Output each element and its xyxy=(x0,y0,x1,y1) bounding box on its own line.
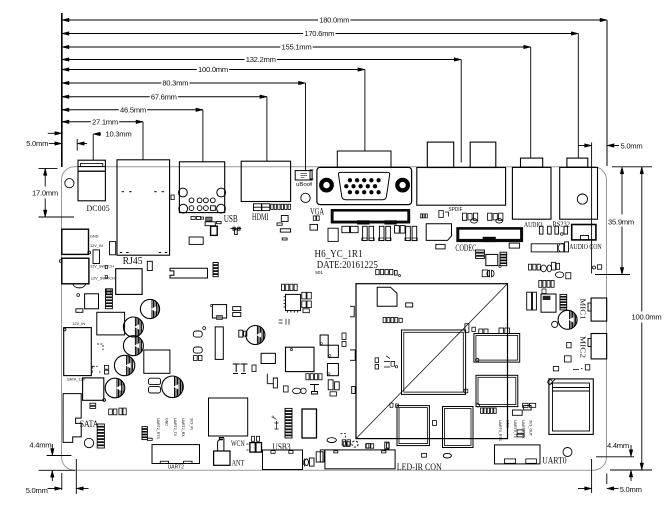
DDR1 top tabs xyxy=(479,329,483,334)
tiny parts with circle xyxy=(482,270,488,277)
DDR chip 2 xyxy=(476,375,518,406)
svg-text:46.5mm: 46.5mm xyxy=(120,105,146,114)
bottom chip 1 in module xyxy=(397,406,429,446)
connector MIC2 xyxy=(591,334,607,359)
svg-text:5.0mm: 5.0mm xyxy=(620,485,642,494)
two tiny squares xyxy=(104,365,108,369)
svg-text:UART0_TX: UART0_TX xyxy=(513,420,517,439)
dimension 35.9mm right xyxy=(612,166,652,168)
tiny marks bottom-left inside module xyxy=(390,403,393,407)
svg-text:180.0mm: 180.0mm xyxy=(319,16,349,25)
inductor side tabs xyxy=(239,330,243,337)
svg-text:MIC2: MIC2 xyxy=(579,336,588,358)
chip with dark band xyxy=(541,294,556,312)
svg-text:67.6mm: 67.6mm xyxy=(151,92,177,101)
dimension 5.0mm top-right xyxy=(591,143,593,274)
dimension 10.3mm xyxy=(92,134,94,160)
DDR2 bottom tabs row xyxy=(481,408,483,413)
big square chip left-middle xyxy=(97,312,125,335)
small part left of USB xyxy=(171,195,174,200)
tiny pair xyxy=(542,289,546,294)
connector 12V input 1 xyxy=(62,229,89,254)
svg-text:3V3_IN: 3V3_IN xyxy=(190,418,194,430)
svg-text:UART0_RTS: UART0_RTS xyxy=(498,420,502,441)
svg-text:GND: GND xyxy=(90,234,99,238)
svg-text:MIC1: MIC1 xyxy=(579,299,588,320)
resistor array left of USB3 chip xyxy=(285,408,292,410)
svg-text:UART2_RTS: UART2_RTS xyxy=(156,418,160,439)
electrolytic capacitor near MIC1 xyxy=(558,310,577,329)
svg-text:80.3mm: 80.3mm xyxy=(162,79,188,88)
dimension 155.1mm xyxy=(62,46,280,48)
connector UART0 xyxy=(495,445,541,464)
transistor Q2 xyxy=(328,345,338,357)
square chip below RJ45 xyxy=(116,269,142,295)
tiny parts right of AUDIO CON xyxy=(593,266,596,269)
svg-text:H6_YC_1R1: H6_YC_1R1 xyxy=(315,249,363,260)
svg-text:17.0mm: 17.0mm xyxy=(32,188,58,197)
connector CODEC black bar xyxy=(456,227,523,242)
connector DC005 power jack xyxy=(78,160,105,171)
svg-text:HDMI: HDMI xyxy=(252,213,269,223)
cluster right of codec row1 xyxy=(529,264,532,270)
dimension 170.6mm xyxy=(62,33,303,35)
coil stack near SATA xyxy=(97,424,104,426)
square chip mid xyxy=(144,350,170,373)
small rect xyxy=(76,309,83,313)
chip with chamfer inside module xyxy=(377,287,397,306)
passives below HDMI xyxy=(281,216,288,222)
svg-text:RJ45: RJ45 xyxy=(123,256,143,267)
electrolytic capacitor C2 xyxy=(123,317,143,337)
L bracket part xyxy=(267,374,277,388)
SoC chip xyxy=(286,347,315,371)
passives below SPDIF connector xyxy=(420,214,422,218)
mounting hole right of UART0 xyxy=(563,448,572,457)
HDMI bottom capacitors xyxy=(254,204,262,211)
electrolytic capacitor C3 xyxy=(123,336,143,356)
transformer part below USB xyxy=(231,227,242,234)
row of resistors xyxy=(539,280,542,287)
dimension extension line x=607 (board right edge) xyxy=(606,20,608,166)
connector HDMI xyxy=(241,161,290,201)
mounting hole top-left xyxy=(65,179,74,188)
tiny marks xyxy=(279,319,289,325)
IC left of CODEC xyxy=(426,224,451,241)
svg-text:USB: USB xyxy=(224,214,238,225)
svg-text:4.4mm: 4.4mm xyxy=(607,441,629,450)
connector SPDIF/AV block xyxy=(417,168,506,206)
tiny parts right of LED-IR text xyxy=(422,453,427,457)
connector LED-IR CON xyxy=(325,450,395,469)
crystal metal can xyxy=(549,379,593,435)
svg-text:GND: GND xyxy=(164,418,168,426)
IC U left xyxy=(85,294,99,309)
DDR chip 1 xyxy=(474,334,520,363)
small pair xyxy=(194,356,198,361)
parts between USB3 and LED-IR xyxy=(305,459,309,466)
CPU square U1 xyxy=(402,330,466,394)
marks right of CPU top xyxy=(465,324,469,333)
tall thin rect xyxy=(215,327,223,360)
electrolytic capacitor C5 xyxy=(105,378,125,398)
dimension 17.0mm left xyxy=(39,167,58,169)
inductor circle xyxy=(246,326,265,345)
rect below USB left xyxy=(189,237,203,244)
tiny parts left edge xyxy=(105,266,107,269)
svg-text:CODEC: CODEC xyxy=(455,243,476,253)
resistor row 2 xyxy=(306,374,309,380)
small circle xyxy=(552,321,558,327)
cluster above module right xyxy=(476,250,485,252)
two vertical bars xyxy=(527,292,532,310)
cluster right of IC xyxy=(302,292,306,299)
dimension 67.6mm xyxy=(62,96,150,98)
svg-text:UART2: UART2 xyxy=(168,464,184,470)
cluster left of CPU xyxy=(375,358,379,363)
svg-text:LED-IR CON: LED-IR CON xyxy=(397,463,442,473)
connector SATA xyxy=(63,394,81,443)
electrolytic capacitor C1 xyxy=(140,299,159,318)
resistor array 2 xyxy=(213,263,218,265)
svg-text:SPDIF: SPDIF xyxy=(449,207,464,213)
resistor array xyxy=(106,289,113,291)
USB3 bridge chip xyxy=(302,409,317,438)
12V_IN connector (SATA power) xyxy=(64,328,92,376)
resistor stack bottom-left xyxy=(142,427,147,429)
dimension 100.0mm right xyxy=(612,469,652,471)
passive pairs below caps xyxy=(109,409,113,415)
tiny row inside module xyxy=(383,318,386,323)
dimension 100.0mm xyxy=(62,69,197,71)
IC with pins xyxy=(286,294,301,310)
svg-text:170.6mm: 170.6mm xyxy=(304,29,334,38)
small rect left of RJ45 xyxy=(110,242,116,255)
svg-text:35.9mm: 35.9mm xyxy=(608,218,634,227)
small rect inside module xyxy=(406,303,413,307)
svg-text:155.1mm: 155.1mm xyxy=(282,43,312,52)
svg-text:3V3_OUT: 3V3_OUT xyxy=(528,420,532,437)
VGA footprint black bar xyxy=(331,209,411,224)
connector RJ45 xyxy=(117,160,170,255)
svg-text:USB3: USB3 xyxy=(273,442,291,452)
svg-text:901: 901 xyxy=(315,270,323,275)
dimension 132.2mm xyxy=(62,59,245,61)
svg-text:UART2_RX: UART2_RX xyxy=(181,418,185,437)
bracket left of VGA xyxy=(310,170,313,179)
svg-text:UART2_TX: UART2_TX xyxy=(173,418,177,437)
dimension 180.0mm xyxy=(62,19,318,21)
svg-text:4.4mm: 4.4mm xyxy=(29,441,51,450)
connector VGA DB15 xyxy=(337,151,391,167)
svg-text:SATA: SATA xyxy=(80,420,99,430)
tiny rect between bottom chips xyxy=(433,421,437,426)
svg-text:27.1mm: 27.1mm xyxy=(92,117,118,126)
passives below VGA xyxy=(313,216,316,220)
vertical rect right of 12V conns xyxy=(93,250,100,264)
connector USB3 xyxy=(263,450,303,470)
svg-text:10.3mm: 10.3mm xyxy=(106,130,132,139)
PCB board outline xyxy=(62,167,607,470)
small circle xyxy=(77,294,80,297)
T parts xyxy=(233,364,248,374)
header below AUDIO jack xyxy=(531,244,564,252)
transistor Q1 xyxy=(320,335,328,345)
tiny parts between MIC1 MIC2 xyxy=(567,342,571,347)
connector UART2 xyxy=(152,445,200,464)
svg-text:DATE:20161225: DATE:20161225 xyxy=(317,260,378,271)
tiny marks right of date xyxy=(376,270,379,275)
chip with pad xyxy=(212,305,226,318)
svg-text:100.0mm: 100.0mm xyxy=(198,65,228,74)
tiny marks left of resistor array xyxy=(274,418,279,430)
svg-text:12V_IN: 12V_IN xyxy=(90,244,103,248)
svg-text:GND: GND xyxy=(506,420,510,428)
svg-text:12V_SWITCH: 12V_SWITCH xyxy=(90,265,114,269)
transistor Q3 xyxy=(327,364,338,376)
dashed bracket 2 xyxy=(97,344,103,350)
svg-text:12V_SWITCH: 12V_SWITCH xyxy=(91,277,115,281)
svg-text:UART0: UART0 xyxy=(542,457,567,467)
shielded module with notch xyxy=(170,268,208,278)
connector AUDIO CON xyxy=(572,225,596,240)
bottom chip 2 in module xyxy=(443,407,474,448)
connector RS232 jack xyxy=(560,167,598,219)
two vertical parts xyxy=(328,380,333,390)
dimension 27.1mm xyxy=(62,121,91,123)
left dimension extension line xyxy=(61,13,63,167)
dimension 46.5mm xyxy=(62,109,119,111)
chip near SATA xyxy=(83,378,104,400)
svg-text:12V_IN: 12V_IN xyxy=(72,322,85,326)
svg-text:100.0mm: 100.0mm xyxy=(632,313,662,322)
connector USB dual xyxy=(179,162,224,213)
WCN module square xyxy=(209,398,248,436)
two rounded rects xyxy=(149,378,161,384)
notch IC xyxy=(261,353,275,363)
passives below USB xyxy=(191,217,195,220)
dimension 5.0mm top-left xyxy=(55,142,62,146)
svg-text:132.2mm: 132.2mm xyxy=(246,55,276,64)
mounting hole near uBoot xyxy=(301,193,310,202)
electrolytic capacitor C4 xyxy=(114,355,134,375)
small rect below CODEC right xyxy=(509,243,519,248)
two small parts xyxy=(233,307,241,311)
dashed bracket xyxy=(92,366,100,372)
tiny parts left of module xyxy=(350,306,355,393)
connector MIC1 xyxy=(591,298,607,321)
parts above LED-IR CON xyxy=(327,438,336,443)
resistor stack right xyxy=(560,294,567,296)
svg-text:5.0mm: 5.0mm xyxy=(621,141,643,150)
tiny pair and ellipses xyxy=(284,386,289,392)
switch uBoot xyxy=(295,171,312,180)
two bars xyxy=(90,403,96,405)
parts below module left corner xyxy=(342,440,345,445)
resistor row above chip xyxy=(282,284,285,290)
main module outline with diagonal xyxy=(356,284,508,439)
dual switch right of WCN label xyxy=(250,443,255,453)
svg-text:ANT: ANT xyxy=(232,459,245,468)
antenna stem and pad ANT xyxy=(218,438,224,452)
svg-text:AUDIO CON: AUDIO CON xyxy=(569,242,602,251)
small rect below RJ45 label xyxy=(147,261,152,270)
svg-text:AUDIO: AUDIO xyxy=(524,220,543,229)
parts above UART0 xyxy=(512,410,522,415)
electrolytic capacitor C6 xyxy=(162,376,184,398)
capacitors row below audio jacks xyxy=(539,226,543,234)
dimension 80.3mm xyxy=(62,82,161,84)
connector 12V input 2 xyxy=(62,258,89,284)
T part 2 xyxy=(310,385,319,395)
two ellipses left xyxy=(193,331,202,337)
svg-text:WCN: WCN xyxy=(231,439,245,448)
svg-text:5.0mm: 5.0mm xyxy=(26,486,48,495)
mounting hole near SATA xyxy=(84,438,93,447)
svg-text:DC005: DC005 xyxy=(87,204,110,213)
connector AUDIO jack xyxy=(512,167,551,219)
svg-text:5.0mm: 5.0mm xyxy=(26,139,48,148)
